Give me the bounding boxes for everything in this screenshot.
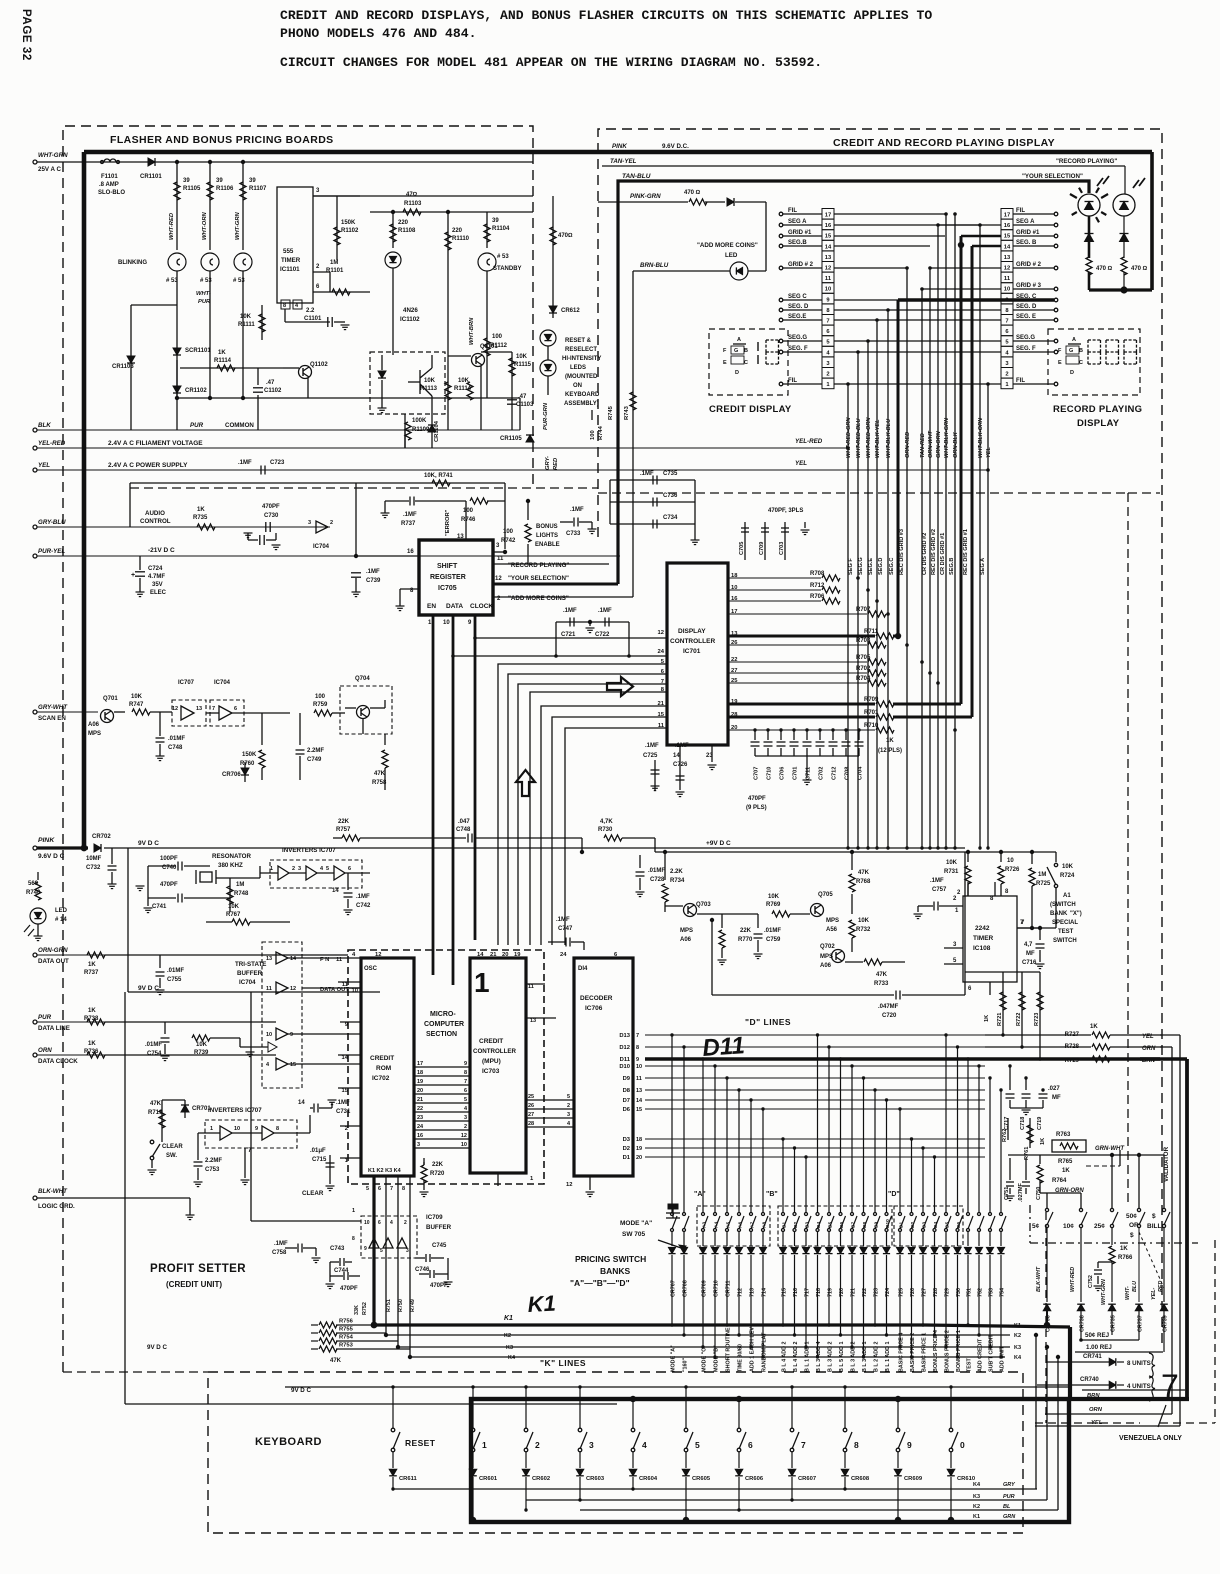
svg-text:LED: LED [55,908,68,914]
svg-text:C754: C754 [147,1051,162,1057]
keyboard switch 4 / CR604 [632,1399,634,1428]
svg-text:D1: D1 [623,1155,631,1161]
svg-text:10: 10 [364,1220,370,1226]
10 R726 [1000,852,1002,862]
svg-text:10: 10 [825,287,831,293]
lamp 53c [234,253,252,271]
svg-text:4 UNITS: 4 UNITS [1127,1383,1151,1390]
svg-text:R1104: R1104 [492,226,510,232]
svg-text:10: 10 [1004,287,1010,293]
svg-text:13: 13 [825,255,832,261]
lamp bottom bus [1089,288,1152,291]
svg-text:10K, R741: 10K, R741 [424,473,453,479]
svg-text:6: 6 [234,706,237,712]
svg-text:C741: C741 [152,904,167,910]
svg-text:470PF: 470PF [340,1286,358,1292]
svg-text:WHT-BLK-ORN: WHT-BLK-ORN [978,417,984,458]
svg-text:CR1105: CR1105 [500,436,522,442]
svg-text:# 14: # 14 [55,917,67,923]
svg-text:13: 13 [530,1018,536,1024]
big hollow arrow right [607,677,633,696]
svg-text:SUB'T CREDIT: SUB'T CREDIT [989,1334,995,1372]
svg-text:380 KHZ: 380 KHZ [218,862,243,869]
svg-text:1M: 1M [1038,872,1046,878]
svg-text:D10: D10 [619,1064,630,1070]
svg-text:CR602: CR602 [532,1476,550,1482]
switch column 722 [863,1078,865,1212]
svg-text:PINK-GRN: PINK-GRN [630,193,661,200]
svg-text:5: 5 [464,1097,467,1103]
resistor 470 col [552,196,554,318]
svg-text:2: 2 [464,1124,467,1130]
svg-text:B7: B7 [851,1222,857,1228]
svg-text:12: 12 [495,576,502,582]
svg-text:11: 11 [497,556,504,562]
C730 branch [267,527,269,540]
svg-text:IC704: IC704 [239,979,256,986]
rail PINK-GRN [598,201,688,203]
svg-text:.1MF: .1MF [598,608,612,614]
svg-text:ELEC: ELEC [150,590,167,596]
reset reselect LEDs [540,330,556,346]
R759 resistor [314,710,332,716]
svg-text:CR605: CR605 [692,1476,711,1482]
big hollow up arrow [516,770,535,796]
svg-text:22K: 22K [338,819,350,825]
IC704 inverter on audio line [316,521,328,533]
svg-text:LEDS: LEDS [570,365,586,371]
svg-text:.01MF: .01MF [168,736,185,742]
svg-text:WHT-RED-GRN: WHT-RED-GRN [846,417,852,458]
rail GRY-BLU [33,525,37,529]
svg-text:GRID #1: GRID #1 [1016,230,1040,236]
svg-text:11: 11 [636,1076,642,1082]
svg-text:100: 100 [590,430,596,440]
svg-text:K2: K2 [504,1333,511,1339]
svg-text:150K: 150K [341,220,356,226]
svg-text:C745: C745 [432,1243,447,1249]
R721 R722 R723 [1002,972,1004,1035]
rail ORN [33,1053,37,1057]
resistor R1112 [486,330,488,362]
svg-text:BANK: BANK [1050,911,1068,917]
svg-text:CR711: CR711 [726,1281,732,1297]
svg-text:R753: R753 [339,1343,354,1349]
svg-text:R1111: R1111 [238,322,255,328]
svg-text:SEG A: SEG A [1016,219,1035,225]
svg-text:PUR: PUR [38,1014,52,1021]
lamp diodes below [1088,216,1091,258]
svg-text:Q1102: Q1102 [310,362,328,368]
diode CR1104 vertical [431,414,433,448]
svg-text:470PF: 470PF [262,504,280,510]
svg-text:K3: K3 [506,1345,513,1351]
credit connector strip [822,209,834,220]
svg-text:1K: 1K [1040,1138,1046,1145]
svg-text:C759: C759 [766,937,781,943]
svg-text:5: 5 [366,1186,369,1192]
svg-text:17: 17 [1004,213,1010,219]
resistor R746 [470,498,488,504]
Q1101 transistor [472,354,485,367]
svg-text:R724: R724 [1060,873,1075,879]
svg-text:10K: 10K [424,378,436,384]
svg-text:R729: R729 [1065,1058,1080,1064]
svg-text:724: 724 [885,1288,891,1297]
svg-text:47K: 47K [858,870,870,876]
47K R768 [851,852,853,870]
svg-text:R760: R760 [240,761,255,767]
svg-text:R1103: R1103 [404,201,422,207]
svg-text:25¢: 25¢ [1094,1223,1105,1230]
.047 C748 top [467,834,469,843]
svg-text:5¢: 5¢ [1032,1223,1040,1230]
svg-text:.1MF: .1MF [640,471,654,477]
svg-text:C706: C706 [780,767,786,780]
svg-text:1: 1 [474,967,490,998]
svg-text:10K: 10K [768,894,780,900]
svg-text:HI-INTENSITY: HI-INTENSITY [562,356,601,362]
svg-text:13: 13 [636,1088,642,1094]
svg-text:.1MF: .1MF [930,878,944,884]
svg-text:MPS: MPS [826,918,839,924]
svg-text:E: E [1058,360,1062,366]
svg-text:1.00 REJ: 1.00 REJ [1086,1344,1112,1351]
svg-text:39: 39 [183,178,190,184]
svg-text:(MOUNTED: (MOUNTED [565,374,598,380]
svg-text:R764: R764 [1052,1178,1067,1184]
svg-text:CR606: CR606 [745,1476,764,1482]
svg-text:BONUS PRICE 2: BONUS PRICE 2 [945,1330,951,1372]
svg-text:C744: C744 [334,1268,349,1274]
svg-text:CR741: CR741 [1083,1354,1102,1360]
svg-text:CR706: CR706 [222,772,241,778]
svg-text:ENABLE: ENABLE [535,542,560,548]
svg-text:.1MF: .1MF [563,608,577,614]
switch column CR708 [683,1047,685,1212]
svg-text:9V D C: 9V D C [138,840,159,847]
R765 label [1052,1154,1086,1166]
svg-text:D9: D9 [623,1076,631,1082]
svg-text:100: 100 [492,334,503,340]
keyboard return verticals [1035,1335,1037,1489]
svg-text:GRY-BLU: GRY-BLU [38,519,66,526]
transistor Q705 [811,904,824,917]
row 2 add more coins [493,596,633,598]
svg-text:CONTROLLER: CONTROLLER [670,638,715,645]
svg-text:47K: 47K [876,972,888,978]
svg-text:.1MF: .1MF [556,917,570,923]
svg-text:13: 13 [1004,255,1011,261]
svg-text:CR710: CR710 [714,1280,720,1297]
svg-text:WHT-ORN: WHT-ORN [202,211,208,240]
coin switch verticals top [1046,1193,1048,1208]
svg-text:GRN-WHT: GRN-WHT [1095,1146,1125,1152]
svg-text:14: 14 [298,1100,305,1106]
svg-text:B: B [744,348,748,354]
svg-text:19: 19 [514,952,521,958]
svg-text:R732: R732 [856,927,871,933]
switch column CR710 [714,1066,716,1212]
svg-text:YEL-: YEL- [1151,1288,1157,1300]
svg-text:470 Ω: 470 Ω [684,190,701,196]
svg-text:100K: 100K [412,418,427,424]
svg-text:R1110: R1110 [452,236,470,242]
svg-text:D2: D2 [623,1146,630,1152]
svg-text:IC108: IC108 [973,945,991,952]
svg-text:712: 712 [738,1288,744,1297]
svg-text:"A": "A" [694,1191,706,1198]
svg-text:K4: K4 [1014,1355,1022,1361]
svg-text:R731: R731 [944,869,959,875]
harness verticals credit bundle [847,384,849,848]
switch column CR707 [671,1035,673,1212]
rail ORN-GRN [33,953,37,957]
resistor R1111 [261,305,263,340]
capacitor C723 [260,466,262,475]
resistor R1107 [242,162,244,250]
LED opto input [385,252,401,268]
svg-text:14: 14 [673,753,680,759]
svg-text:FIL: FIL [788,208,797,214]
svg-text:C718: C718 [1020,1117,1026,1130]
svg-text:23: 23 [417,1115,423,1121]
svg-text:7: 7 [636,1033,639,1039]
svg-text:4.7MF: 4.7MF [148,574,165,580]
svg-text:LED: LED [725,252,738,259]
svg-text:39: 39 [216,178,223,184]
svg-text:8: 8 [352,1236,355,1242]
svg-text:GRN-ORN: GRN-ORN [936,430,942,458]
svg-text:TIME 30/60: TIME 30/60 [738,1344,744,1372]
svg-text:R730: R730 [598,827,613,833]
svg-text:R745: R745 [608,405,614,420]
svg-text:A56: A56 [826,927,838,933]
audio control resistor R735 [197,524,215,530]
svg-text:3: 3 [298,866,301,872]
svg-text:R750: R750 [398,1299,404,1312]
svg-text:LIGHTS: LIGHTS [536,533,558,539]
GRN-WHT row [1008,1154,1164,1156]
C741 cap [177,894,179,903]
svg-text:BASIC PRICE 4: BASIC PRICE 4 [899,1333,905,1372]
svg-text:.1MF: .1MF [570,507,584,513]
svg-text:CR1104: CR1104 [434,420,440,442]
diode CR1105 [526,435,534,442]
svg-text:R721: R721 [997,1013,1003,1026]
switch column 728 [934,1157,936,1212]
svg-text:220: 220 [398,220,409,226]
svg-text:9V D C: 9V D C [147,1344,167,1351]
svg-text:.1MF: .1MF [366,569,380,575]
svg-text:STANDBY: STANDBY [493,266,522,272]
svg-text:MODE "A": MODE "A" [671,1345,677,1372]
R758 resistor [384,734,386,745]
svg-text:15: 15 [290,1062,296,1068]
svg-text:EN: EN [427,603,436,610]
svg-text:GRY-WHT: GRY-WHT [38,704,68,711]
C754 R739 [164,1022,166,1034]
svg-text:SEG.E: SEG.E [868,558,874,575]
svg-text:SEG C: SEG C [788,294,807,300]
svg-text:2.4V A C FILIAMENT VOLTAGE: 2.4V A C FILIAMENT VOLTAGE [108,440,203,447]
svg-text:.047: .047 [458,819,470,825]
svg-text:12: 12 [172,706,178,712]
svg-text:25: 25 [528,1094,534,1100]
svg-text:RECORD PLAYING: RECORD PLAYING [1053,404,1142,415]
svg-text:SCR1101: SCR1101 [185,348,211,354]
svg-text:FIL: FIL [1016,208,1025,214]
svg-text:27: 27 [528,1112,534,1118]
svg-text:10: 10 [266,1032,272,1038]
svg-text:D11: D11 [620,1057,631,1063]
svg-text:470 Ω: 470 Ω [1096,266,1113,272]
resistor R1114 [217,365,235,371]
svg-text:BLK: BLK [38,422,51,429]
svg-text:Q701: Q701 [103,696,118,702]
R719 CR701 [151,1100,153,1135]
svg-text:7: 7 [1005,319,1008,325]
cap row C707-C704 below IC701 [754,730,756,740]
keyboard rail thick extension [1069,1397,1189,1401]
svg-text:10: 10 [461,1142,467,1148]
right D line resistors [1092,1032,1110,1038]
svg-text:.047MF: .047MF [878,1004,899,1010]
svg-text:TAN-YEL: TAN-YEL [610,158,637,165]
switch column 713 [750,1100,752,1212]
svg-text:C719: C719 [1037,1117,1043,1130]
svg-text:10K: 10K [516,354,528,360]
venezuela only dashed frame [1045,1212,1047,1423]
svg-text:C724: C724 [148,566,163,572]
svg-text:C1101: C1101 [304,316,322,322]
svg-text:7: 7 [826,319,829,325]
svg-text:C722: C722 [595,632,610,638]
C732 cap [109,848,111,862]
svg-text:100: 100 [315,694,326,700]
switch column 726 [911,1139,913,1212]
svg-text:13: 13 [196,706,202,712]
K1 bus right extension [925,1325,1070,1327]
svg-text:GRID # 2: GRID # 2 [788,262,814,268]
svg-text:9V D C: 9V D C [138,985,159,992]
svg-text:4: 4 [642,1440,647,1450]
svg-text:R735: R735 [193,515,208,521]
svg-text:"ADD MORE COINS": "ADD MORE COINS" [697,242,758,249]
svg-text:4: 4 [390,1220,393,1226]
resistor 470ohm pinkgrn [689,199,707,205]
svg-text:10: 10 [352,988,358,994]
rail PUR-YEL [33,554,37,558]
svg-text:7: 7 [464,1079,467,1085]
22K R757 row [342,835,360,841]
svg-text:R737: R737 [84,970,99,976]
svg-text:R754: R754 [339,1335,354,1341]
credit display dashed box [709,329,788,395]
svg-text:R770: R770 [738,937,753,943]
svg-text:11: 11 [342,982,349,988]
svg-text:K4: K4 [508,1355,516,1361]
svg-text:(12 PLS): (12 PLS) [878,748,902,754]
svg-text:14: 14 [342,1055,349,1061]
switch column 753 [989,1078,991,1212]
svg-text:14: 14 [332,888,339,894]
svg-text:IC704: IC704 [214,680,231,686]
svg-text:PUR-YEL: PUR-YEL [38,548,65,555]
svg-text:10K: 10K [196,1042,208,1048]
svg-text:725: 725 [899,1288,905,1297]
svg-text:C746: C746 [415,1267,430,1273]
svg-text:20: 20 [417,1088,423,1094]
svg-text:IC703: IC703 [482,1068,500,1075]
svg-text:100: 100 [463,508,474,514]
svg-text:13: 13 [266,956,272,962]
svg-text:.01μF: .01μF [310,1148,326,1154]
credit controller IC703 [470,958,526,1173]
R762 R761 resistors [1007,1118,1009,1140]
svg-text:24: 24 [658,649,665,655]
svg-text:REGISTER: REGISTER [430,574,466,581]
svg-text:15: 15 [825,234,832,240]
555 timer IC1101 [277,187,313,303]
dollar dashed link [1139,1232,1164,1288]
svg-text:6: 6 [378,1220,381,1226]
svg-text:R751: R751 [386,1299,392,1312]
svg-text:R749: R749 [410,1299,416,1312]
svg-text:.1MF: .1MF [675,743,689,749]
resistor R1108 [392,212,394,248]
svg-text:28: 28 [528,1121,534,1127]
svg-text:A06: A06 [680,937,692,943]
svg-text:3: 3 [567,1112,570,1118]
svg-text:14: 14 [825,244,832,250]
svg-text:F N: F N [320,957,329,963]
diode CR612 [549,306,557,313]
svg-text:D8: D8 [623,1088,631,1094]
capacitor C1103 [511,378,513,430]
svg-text:15: 15 [342,1088,349,1094]
C751 C750 caps [1009,1158,1011,1180]
svg-text:8: 8 [854,1440,859,1450]
svg-text:D13: D13 [619,1033,630,1039]
svg-text:G: G [734,348,738,354]
svg-text:BL: BL [1003,1504,1011,1510]
svg-text:22: 22 [417,1106,423,1112]
svg-text:RED: RED [1158,1281,1164,1292]
resistor R1103 [403,209,421,215]
2.2K R734 [664,852,666,880]
svg-text:9: 9 [907,1440,912,1450]
svg-text:470PF: 470PF [748,796,766,802]
credit display dashed frame [598,129,1162,1345]
svg-text:SECTION: SECTION [426,1031,457,1038]
switch column 724 [886,1100,888,1212]
svg-text:B8: B8 [862,1222,868,1228]
svg-text:R738: R738 [84,1016,99,1022]
svg-text:PUR: PUR [190,422,204,429]
svg-text:A06: A06 [820,963,832,969]
rail YEL [33,468,37,472]
C749 cap [299,713,301,745]
svg-text:ADD UNIT: ADD UNIT [1000,1346,1006,1372]
svg-text:5: 5 [695,1440,700,1450]
svg-text:4,7: 4,7 [1024,942,1033,948]
svg-text:5: 5 [567,1094,570,1100]
svg-text:WHT-: WHT- [1125,1286,1131,1300]
svg-text:R744: R744 [598,425,604,440]
switch column 721 [851,1066,853,1212]
diode add more coins [727,198,734,206]
